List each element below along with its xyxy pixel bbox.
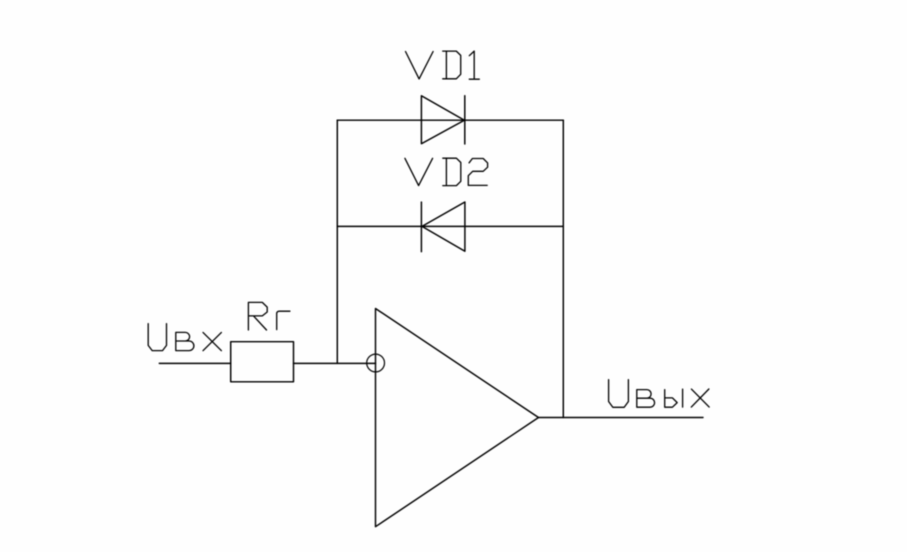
wire: output: [539, 417, 704, 419]
label Uвх: [148, 324, 221, 351]
wire: left feedback vertical: [336, 120, 338, 363]
wire: top feedback branch (VD1 branch): [337, 119, 563, 121]
wire: input: [159, 362, 230, 364]
op-amp U1: [376, 309, 539, 527]
label VD2: [405, 158, 488, 185]
label Rг: [248, 302, 290, 330]
diode VD1: [421, 96, 464, 144]
inverting input circle: [367, 354, 385, 372]
resistor Rг: [231, 342, 294, 382]
wire: right feedback vertical: [562, 120, 564, 417]
diode VD2: [421, 202, 465, 252]
wire: VD2 feedback branch: [337, 225, 563, 227]
wire: resistor to op-amp input: [294, 362, 376, 364]
label VD1: [406, 51, 480, 79]
label Uвых: [609, 380, 710, 408]
